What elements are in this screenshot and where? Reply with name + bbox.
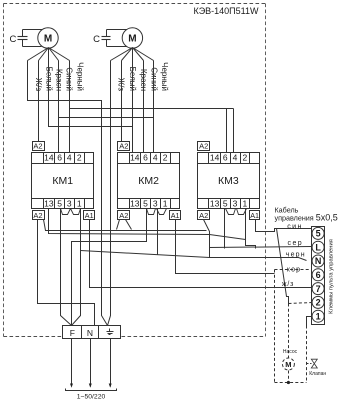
svg-text:1: 1 [163,199,168,209]
svg-text:5: 5 [223,199,228,209]
svg-text:F: F [70,328,75,338]
svg-text:КМ2: КМ2 [138,175,159,187]
svg-text:1~50/220: 1~50/220 [77,394,106,400]
svg-text:N: N [315,256,322,266]
svg-text:Клеммы пульта управления: Клеммы пульта управления [329,239,335,314]
svg-text:КМ3: КМ3 [218,175,239,187]
svg-text:L: L [315,242,321,252]
svg-text:Клапан: Клапан [309,371,326,377]
svg-text:1: 1 [243,199,248,209]
svg-text:1: 1 [316,311,321,321]
svg-text:М: М [44,34,52,45]
svg-text:5: 5 [143,199,148,209]
svg-text:С: С [93,34,100,45]
svg-text:6: 6 [223,153,228,163]
svg-text:син: син [287,223,302,230]
svg-text:3: 3 [153,199,158,209]
svg-text:4: 4 [233,153,238,163]
svg-text:A2: A2 [199,142,208,151]
svg-text:13: 13 [44,199,54,209]
svg-text:2: 2 [163,153,168,163]
svg-text:сер: сер [288,240,304,247]
svg-text:4: 4 [153,153,158,163]
svg-text:14: 14 [210,153,220,163]
svg-text:14: 14 [44,153,54,163]
svg-text:6: 6 [316,270,321,280]
svg-text:A2: A2 [33,211,42,220]
svg-text:кор: кор [287,266,302,273]
svg-text:КМ1: КМ1 [52,175,73,187]
svg-text:6: 6 [57,153,62,163]
svg-text:3: 3 [233,199,238,209]
svg-text:2: 2 [316,298,321,308]
svg-text:ж/з: ж/з [282,281,294,288]
svg-text:A1: A1 [171,211,180,220]
svg-text:6: 6 [143,153,148,163]
svg-text:13: 13 [210,199,220,209]
svg-text:М: М [285,360,291,369]
svg-text:A2: A2 [199,211,208,220]
svg-text:A1: A1 [250,211,259,220]
svg-text:4: 4 [67,153,72,163]
svg-text:С: С [9,34,16,45]
svg-text:КЭВ-140П511W: КЭВ-140П511W [193,6,259,16]
svg-text:1: 1 [77,199,82,209]
svg-text:N: N [87,328,93,338]
svg-text:2: 2 [243,153,248,163]
svg-text:A2: A2 [119,211,128,220]
svg-text:Черный: Черный [75,62,84,91]
svg-text:3: 3 [67,199,72,209]
svg-text:Насос: Насос [283,349,298,355]
svg-text:7: 7 [316,284,321,294]
svg-text:A1: A1 [85,211,94,220]
svg-text:2: 2 [77,153,82,163]
svg-text:A2: A2 [119,142,128,151]
svg-text:14: 14 [130,153,140,163]
svg-text:5: 5 [57,199,62,209]
svg-text:13: 13 [130,199,140,209]
svg-text:Черный: Черный [160,62,169,91]
svg-text:5: 5 [316,229,321,239]
svg-text:A2: A2 [33,142,42,151]
svg-text:управления 5х0,5: управления 5х0,5 [275,213,338,223]
svg-text:М: М [128,34,136,45]
svg-text:черн: черн [286,252,306,259]
